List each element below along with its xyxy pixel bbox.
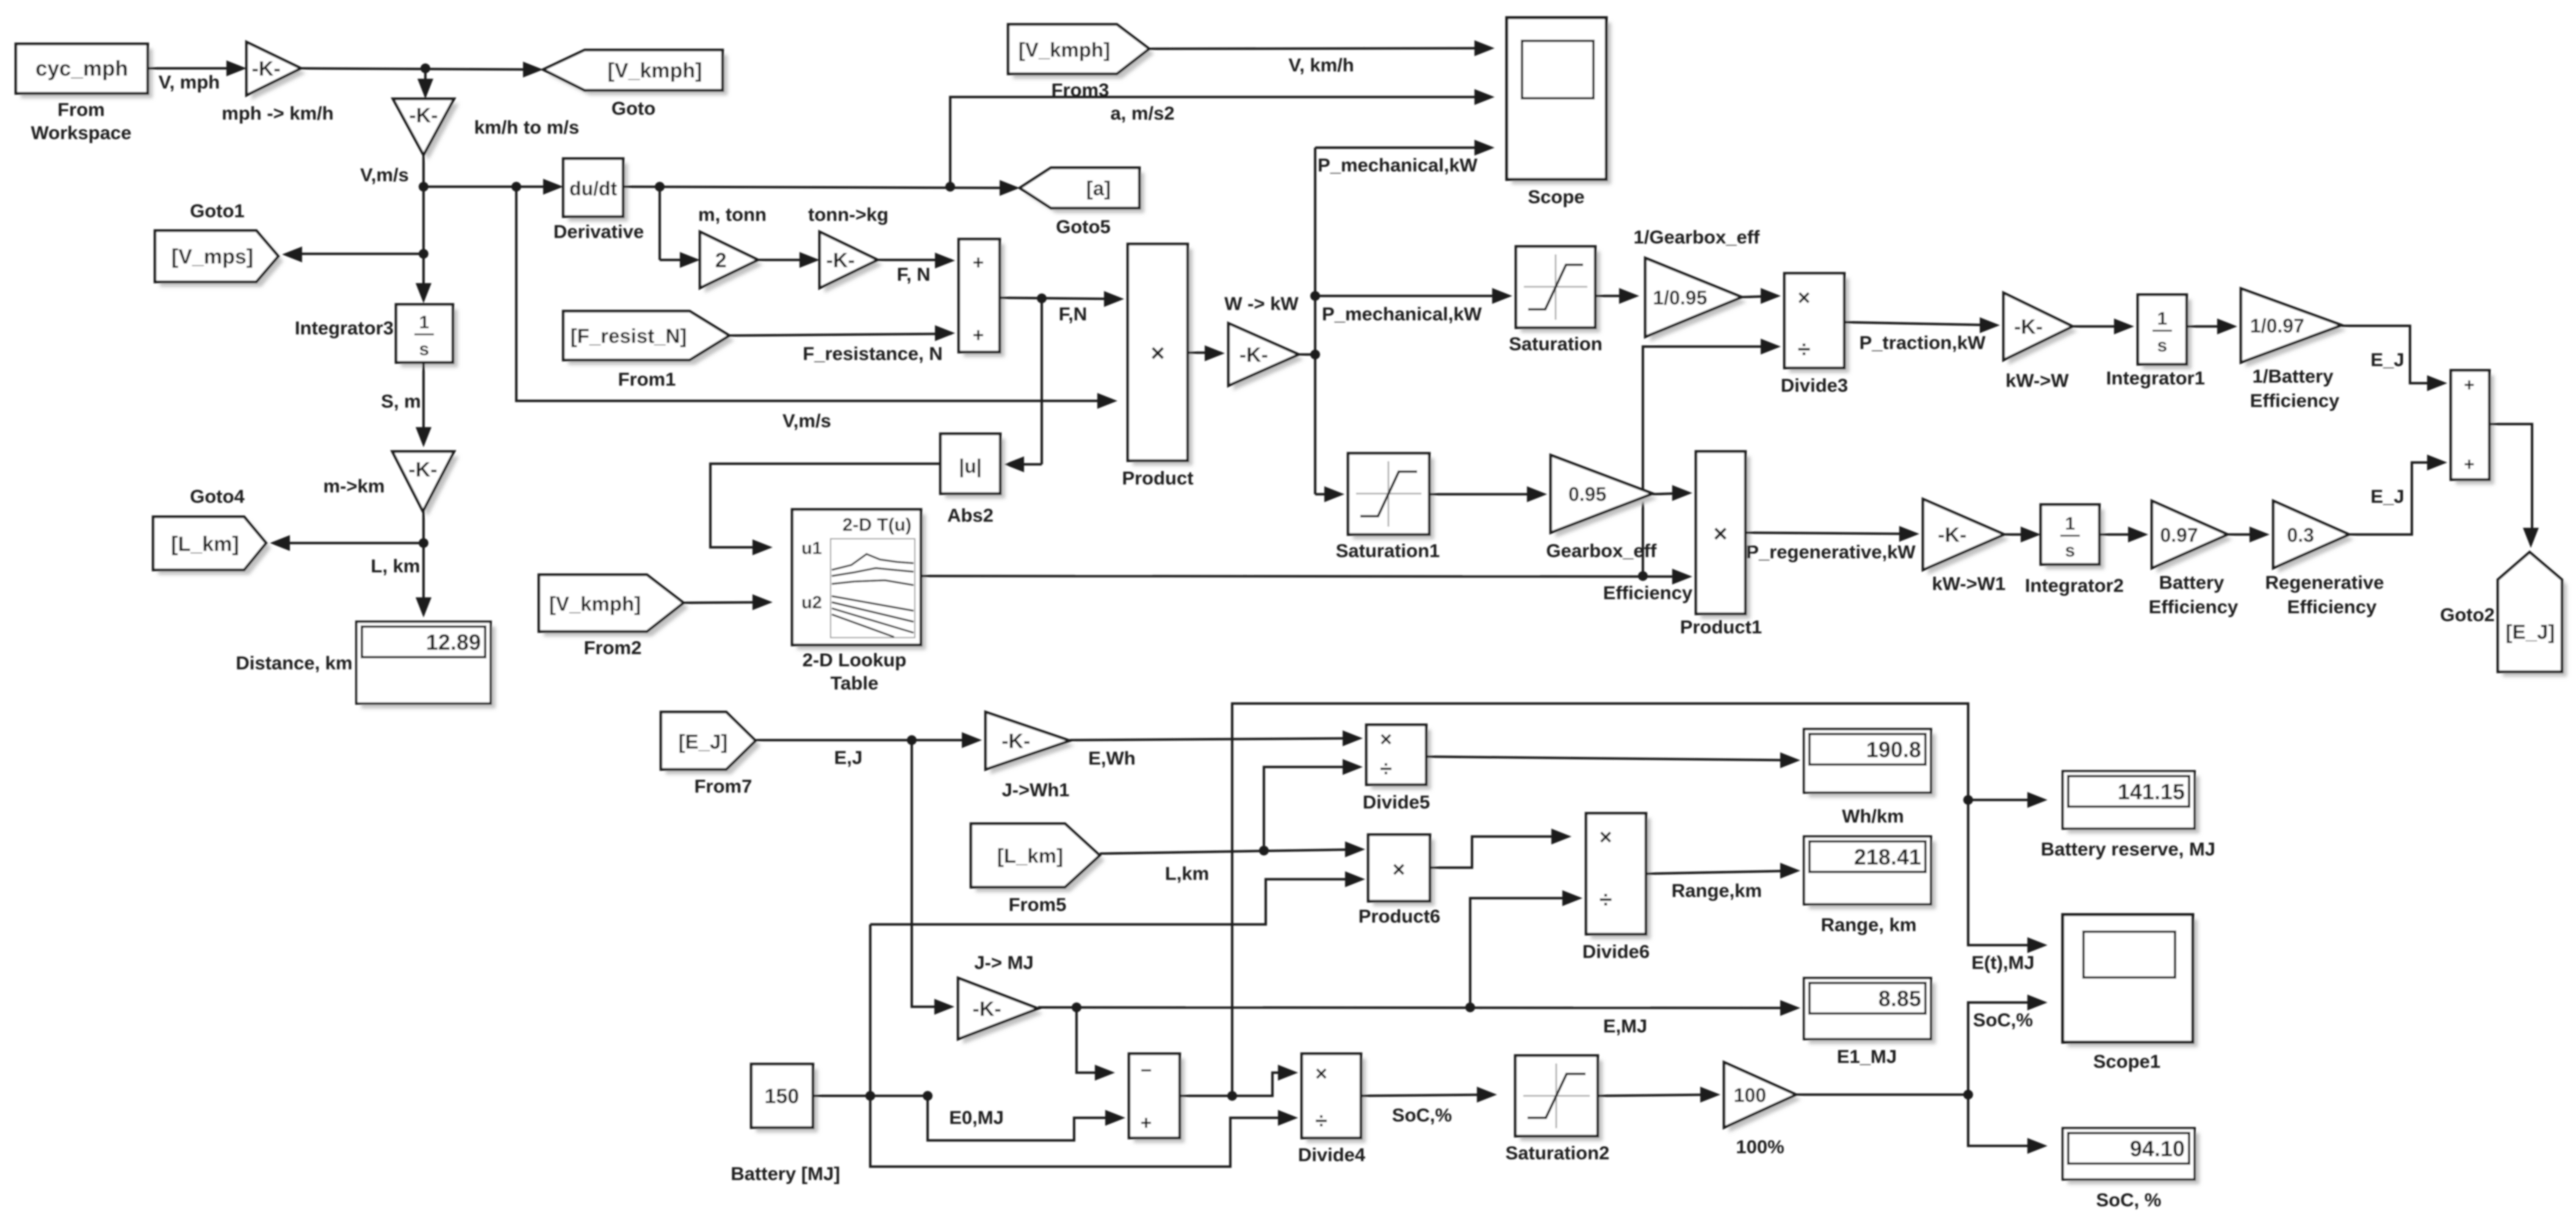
block Scope1 bbox=[2068, 920, 2198, 1047]
wire Saturation2 to 100 gain bbox=[1598, 1095, 1717, 1096]
goto tag [F_resist_N] From1 bbox=[568, 316, 734, 365]
block Saturation bbox=[1521, 251, 1600, 333]
wire Saturation to 1/Gearbox_eff gain bbox=[1595, 295, 1636, 297]
svg-text:J->Wh1: J->Wh1 bbox=[1001, 779, 1069, 801]
svg-text:[V_mps]: [V_mps] bbox=[171, 245, 253, 268]
display Distance, km value 12.89 bbox=[361, 627, 496, 708]
from tag [L_km] From5 bbox=[976, 829, 1105, 892]
svg-text:Battery: Battery bbox=[2159, 572, 2225, 593]
svg-text:+: + bbox=[2464, 455, 2475, 475]
svg-text:[V_kmph]: [V_kmph] bbox=[608, 59, 702, 82]
svg-text:×: × bbox=[1599, 824, 1612, 849]
svg-text:V,m/s: V,m/s bbox=[782, 410, 831, 431]
svg-text:÷: ÷ bbox=[1600, 887, 1612, 913]
svg-text:100: 100 bbox=[1734, 1084, 1766, 1106]
svg-text:SoC, %: SoC, % bbox=[2096, 1189, 2162, 1211]
wire E(t) to Battery reserve display bbox=[1968, 799, 2044, 801]
svg-text:-K-: -K- bbox=[973, 998, 1001, 1021]
block Integrator3 1/s bbox=[401, 309, 458, 367]
wire E0 drop to Divide4 divide input bbox=[870, 1096, 1294, 1167]
wire junction down into km/h to m/s gain bbox=[424, 68, 427, 96]
block Integrator2 1/s bbox=[2046, 509, 2104, 569]
wire to Saturation, label P_mechanical,kW bbox=[1315, 295, 1509, 297]
wire Abs2 output loop to lookup u1 bbox=[710, 464, 940, 547]
wire P_mechanical vertical trunk x=2155 bbox=[1314, 148, 1316, 494]
gain kW->W (-K-) bbox=[2008, 298, 2077, 365]
svg-text:[V_kmph]: [V_kmph] bbox=[549, 592, 641, 615]
gain tonn->kg (-K-) bbox=[824, 237, 882, 293]
svg-text:F, N: F, N bbox=[897, 264, 930, 285]
svg-text:[V_kmph]: [V_kmph] bbox=[1019, 38, 1110, 61]
gain J->MJ (-K-) bbox=[963, 983, 1043, 1044]
svg-text:Integrator2: Integrator2 bbox=[2025, 575, 2124, 596]
wire 0.95 to Product1 input 1 bbox=[1653, 493, 1689, 494]
gain 2 (mass, tonn) bbox=[705, 237, 763, 293]
svg-text:Saturation: Saturation bbox=[1509, 333, 1602, 355]
goto tag [a] Goto5 bbox=[1025, 173, 1144, 213]
wire 1/0.95 to Divide3 X input bbox=[1742, 296, 1777, 297]
block Product6 bbox=[1373, 840, 1435, 906]
wire to Scope input 3, label P_mechanical,kW bbox=[1315, 146, 1491, 149]
wire Saturation1 to Gearbox_eff gain bbox=[1429, 493, 1543, 495]
gain Battery Efficiency (0.97) bbox=[2157, 506, 2232, 573]
svg-text:+: + bbox=[1141, 1112, 1152, 1134]
svg-text:×: × bbox=[1713, 520, 1727, 547]
display Range, km value 218.41 bbox=[1809, 841, 1936, 909]
display SoC, % value 94.10 bbox=[2068, 1133, 2199, 1184]
wire From1 to Add, label F_resistance, N bbox=[729, 334, 951, 336]
svg-text:−: − bbox=[1141, 1059, 1152, 1081]
display Battery reserve, MJ value 141.15 bbox=[2068, 776, 2199, 833]
block Divide5 bbox=[1371, 730, 1431, 790]
gain Regenerative Efficiency (0.3) bbox=[2278, 506, 2354, 573]
svg-text:J-> MJ: J-> MJ bbox=[974, 952, 1033, 973]
block du/dt Derivative bbox=[568, 164, 628, 221]
wire junction down to Abs2 input bbox=[1041, 298, 1043, 464]
block 2-D Lookup Table bbox=[797, 514, 926, 650]
svg-text:Wh/km: Wh/km bbox=[1842, 805, 1904, 827]
goto tag [V_kmph] Goto bbox=[548, 55, 727, 95]
svg-text:SoC,%: SoC,% bbox=[1973, 1009, 2033, 1031]
sum block Subtract (150 - E) bbox=[1134, 1059, 1185, 1143]
svg-text:E1_MJ: E1_MJ bbox=[1837, 1046, 1897, 1067]
from tag [V_kmph] From2 bbox=[544, 580, 688, 636]
svg-text:[L_km]: [L_km] bbox=[171, 533, 239, 556]
svg-text:[L_km]: [L_km] bbox=[997, 844, 1063, 867]
svg-text:Battery [MJ]: Battery [MJ] bbox=[731, 1163, 840, 1184]
svg-text:-K-: -K- bbox=[409, 104, 438, 128]
svg-text:Scope: Scope bbox=[1528, 186, 1584, 207]
gain Gearbox_eff (0.95) bbox=[1556, 460, 1658, 538]
svg-text:Divide3: Divide3 bbox=[1781, 375, 1848, 396]
svg-text:-K-: -K- bbox=[1938, 524, 1966, 547]
svg-text:-K-: -K- bbox=[408, 458, 437, 481]
svg-text:Range, km: Range, km bbox=[1821, 914, 1917, 935]
svg-text:V,m/s: V,m/s bbox=[360, 164, 409, 185]
wire SoC trunk to Scope1 input 2, label SoC,% bbox=[1968, 1002, 2044, 1095]
svg-text:+: + bbox=[2464, 375, 2475, 395]
svg-text:÷: ÷ bbox=[1798, 337, 1811, 362]
svg-text:u1: u1 bbox=[801, 539, 822, 558]
svg-text:Divide6: Divide6 bbox=[1582, 941, 1650, 962]
svg-text:Efficiency: Efficiency bbox=[2149, 596, 2239, 617]
gain 1/Battery Efficiency (1/0.97) bbox=[2246, 293, 2347, 367]
svg-text:×: × bbox=[1150, 340, 1164, 367]
goto tag [V_mps] Goto1 bbox=[160, 236, 283, 287]
svg-text:tonn->kg: tonn->kg bbox=[808, 204, 889, 225]
svg-text:mph -> km/h: mph -> km/h bbox=[222, 103, 333, 124]
svg-text:+: + bbox=[973, 251, 984, 273]
svg-text:1/Gearbox_eff: 1/Gearbox_eff bbox=[1634, 226, 1760, 248]
wire down to Saturation1 bbox=[1315, 493, 1341, 495]
svg-text:[a]: [a] bbox=[1086, 177, 1111, 200]
svg-text:Saturation1: Saturation1 bbox=[1336, 540, 1440, 561]
wire 150 output, junctions x=1426 x=1520, label E0,MJ bbox=[813, 1095, 928, 1097]
wire E0 line to Product6 input 2 bbox=[870, 879, 1362, 924]
svg-text:L, km: L, km bbox=[371, 555, 420, 577]
svg-text:L,km: L,km bbox=[1165, 863, 1209, 884]
svg-text:s: s bbox=[2157, 336, 2168, 356]
svg-text:Product6: Product6 bbox=[1358, 905, 1440, 927]
wire Divide4 output to Saturation2, label SoC,% bbox=[1361, 1095, 1493, 1096]
svg-text:|u|: |u| bbox=[959, 455, 981, 477]
wire E0 jog to Subtract plus input bbox=[928, 1096, 1122, 1140]
svg-text:-K-: -K- bbox=[1239, 344, 1268, 367]
svg-text:m, tonn: m, tonn bbox=[698, 204, 767, 225]
wire m->km down to Display, junction to [L_km] bbox=[422, 511, 425, 614]
svg-text:0.3: 0.3 bbox=[2287, 524, 2314, 546]
svg-text:Product1: Product1 bbox=[1680, 616, 1762, 638]
wire Divide5 divide input from L,km line bbox=[1264, 767, 1359, 846]
svg-text:SoC,%: SoC,% bbox=[1392, 1104, 1452, 1126]
svg-text:Divide5: Divide5 bbox=[1363, 791, 1430, 813]
svg-text:1/0.97: 1/0.97 bbox=[2250, 315, 2304, 337]
sum block Add1 (E_J + E_J) bbox=[2456, 375, 2494, 484]
svg-text:P_traction,kW: P_traction,kW bbox=[1860, 332, 1986, 353]
svg-text:Distance, km: Distance, km bbox=[236, 652, 352, 674]
svg-text:1: 1 bbox=[2157, 309, 2168, 329]
svg-text:0.95: 0.95 bbox=[1568, 483, 1606, 505]
svg-text:Product: Product bbox=[1122, 467, 1193, 489]
gain J->Wh1 (-K-) bbox=[990, 717, 1075, 774]
gain W->kW (-K-) bbox=[1233, 328, 1304, 391]
svg-text:×: × bbox=[1380, 728, 1392, 751]
svg-text:-K-: -K- bbox=[826, 249, 855, 272]
block Divide6 bbox=[1591, 818, 1651, 939]
svg-text:P_mechanical,kW: P_mechanical,kW bbox=[1318, 154, 1478, 176]
svg-text:km/h to m/s: km/h to m/s bbox=[474, 117, 579, 138]
svg-text:+: + bbox=[973, 324, 984, 346]
svg-text:94.10: 94.10 bbox=[2130, 1136, 2185, 1161]
svg-text:Goto: Goto bbox=[612, 98, 655, 119]
svg-text:From: From bbox=[57, 99, 105, 120]
svg-text:Divide4: Divide4 bbox=[1298, 1144, 1366, 1165]
display E1_MJ value 8.85 bbox=[1809, 983, 1936, 1044]
wire vertical V,m/s trunk x=694 bbox=[422, 155, 425, 300]
wire J->MJ output E,MJ line to E1_MJ display, junctions bbox=[1038, 1007, 1797, 1008]
gain km/h to m/s (-K- down triangle) bbox=[398, 104, 459, 160]
wire Integrator2 to Battery Efficiency gain bbox=[2099, 533, 2145, 536]
from tag [E_J] From7 bbox=[666, 717, 760, 774]
wire W->kW output to vertical trunk x=2155 bbox=[1299, 353, 1315, 356]
svg-text:Efficiency: Efficiency bbox=[2287, 596, 2377, 617]
goto tag [E_J] Goto2 (points up) bbox=[2503, 557, 2567, 677]
from tag [V_kmph] From3 bbox=[1013, 29, 1154, 79]
svg-text:P_mechanical,kW: P_mechanical,kW bbox=[1322, 303, 1482, 325]
svg-text:Goto1: Goto1 bbox=[190, 200, 245, 221]
svg-text:Integrator1: Integrator1 bbox=[2106, 367, 2205, 389]
svg-text:[E_J]: [E_J] bbox=[2506, 621, 2555, 643]
svg-text:Integrator3: Integrator3 bbox=[295, 317, 394, 339]
svg-text:2: 2 bbox=[715, 249, 727, 272]
wire From5 L,km line to Product6 input 1, junction x=2071 bbox=[1100, 849, 1362, 854]
wire a,m/s2 to Scope input 2 bbox=[950, 97, 1491, 187]
svg-text:190.8: 190.8 bbox=[1866, 737, 1921, 762]
wire Product6 output to Divide6 X input bbox=[1430, 837, 1568, 868]
svg-text:From1: From1 bbox=[618, 369, 676, 390]
svg-text:From7: From7 bbox=[695, 776, 752, 797]
svg-text:Efficiency: Efficiency bbox=[1603, 582, 1693, 603]
wire gain2 to tonn->kg gain bbox=[758, 259, 816, 261]
svg-text:1: 1 bbox=[419, 312, 430, 333]
block cyc_mph (From Workspace source) bbox=[21, 49, 153, 98]
block Saturation2 bbox=[1520, 1060, 1603, 1141]
wire Divide6 output to Range display, label Range,km bbox=[1646, 871, 1797, 874]
svg-text:F,N: F,N bbox=[1059, 303, 1088, 325]
gain m->km (-K- down triangle) bbox=[397, 456, 459, 516]
svg-text:100%: 100% bbox=[1736, 1136, 1784, 1157]
gain 1/Gearbox_eff (1/0.95) bbox=[1650, 263, 1747, 342]
svg-text:218.41: 218.41 bbox=[1854, 844, 1921, 869]
wire J->Wh1 to Divide5 X input, label E,Wh bbox=[1070, 738, 1359, 740]
svg-text:E,J: E,J bbox=[834, 747, 863, 768]
svg-text:-K-: -K- bbox=[2014, 315, 2043, 339]
svg-text:cyc_mph: cyc_mph bbox=[35, 57, 128, 81]
svg-text:P_regenerative,kW: P_regenerative,kW bbox=[1746, 541, 1916, 563]
svg-text:kW->W: kW->W bbox=[2005, 370, 2069, 391]
svg-text:÷: ÷ bbox=[1315, 1108, 1327, 1133]
svg-text:[E_J]: [E_J] bbox=[679, 730, 728, 753]
svg-text:1: 1 bbox=[2065, 514, 2076, 534]
svg-text:Abs2: Abs2 bbox=[947, 505, 994, 526]
svg-text:8.85: 8.85 bbox=[1878, 986, 1921, 1011]
svg-text:2-D Lookup: 2-D Lookup bbox=[803, 649, 907, 671]
block Product1 bbox=[1701, 456, 1750, 619]
block Integrator1 1/s bbox=[2143, 300, 2192, 369]
svg-text:1/Battery: 1/Battery bbox=[2253, 365, 2334, 387]
svg-text:Scope1: Scope1 bbox=[2093, 1051, 2160, 1072]
wire Add output to Product, junction x=1707, label F,N bbox=[1000, 298, 1120, 299]
wire V,m/s long line to Product input 2 bbox=[516, 187, 1114, 401]
wire E,J drop to J->MJ gain input bbox=[912, 740, 951, 1007]
wire junction to [L_km] tag bbox=[286, 542, 424, 544]
sum block Add (F,N = F + F_resistance) bbox=[964, 244, 1005, 357]
lookup table efficiency curves bbox=[832, 554, 914, 570]
gain mph -> km/h (-K-) bbox=[251, 47, 306, 100]
goto tag [L_km] Goto4 bbox=[158, 522, 271, 575]
svg-text:Derivative: Derivative bbox=[554, 221, 644, 242]
svg-text:E_J: E_J bbox=[2370, 349, 2404, 370]
block Saturation1 bbox=[1353, 458, 1434, 539]
block Divide4 bbox=[1307, 1059, 1366, 1143]
wire Divide5 output to Wh/km display bbox=[1426, 757, 1797, 760]
svg-text:Regenerative: Regenerative bbox=[2265, 572, 2384, 593]
svg-text:u2: u2 bbox=[801, 593, 822, 613]
svg-text:×: × bbox=[1315, 1062, 1327, 1085]
wire From2 to lookup u2 bbox=[684, 602, 769, 603]
svg-text:From5: From5 bbox=[1009, 894, 1067, 915]
display Wh/km value 190.8 bbox=[1809, 734, 1936, 797]
wire Efficiency line from lookup to Product1 input 2 bbox=[921, 576, 1689, 577]
svg-text:From2: From2 bbox=[584, 637, 642, 658]
svg-text:Battery reserve, MJ: Battery reserve, MJ bbox=[2041, 838, 2215, 860]
wire Divide6 divide input from E,MJ line bbox=[1470, 898, 1579, 1003]
wire Divide3 divide input from Efficiency line bbox=[1643, 347, 1777, 572]
svg-text:[F_resist_N]: [F_resist_N] bbox=[571, 325, 687, 347]
svg-text:F_resistance, N: F_resistance, N bbox=[803, 343, 942, 364]
svg-text:×: × bbox=[1797, 285, 1810, 310]
svg-text:-K-: -K- bbox=[251, 57, 280, 81]
svg-text:Efficiency: Efficiency bbox=[2250, 390, 2340, 411]
wire Integrator3 down to m->km gain bbox=[422, 362, 425, 444]
svg-text:s: s bbox=[419, 339, 430, 359]
wire E(t) trunk from Subtract up over to displays bbox=[1232, 704, 2044, 1096]
wire gain to Goto [V_kmph], junction at x=697 bbox=[301, 68, 539, 70]
wire junction to [V_mps] tag (leftward) bbox=[298, 253, 424, 255]
wire V,m/s to du/dt Derivative, junction x=846 bbox=[424, 185, 560, 188]
svg-text:du/dt: du/dt bbox=[569, 178, 618, 200]
svg-text:÷: ÷ bbox=[1380, 756, 1392, 781]
svg-text:1/0.95: 1/0.95 bbox=[1653, 287, 1707, 309]
svg-text:12.89: 12.89 bbox=[426, 630, 481, 655]
svg-text:V, mph: V, mph bbox=[159, 71, 220, 93]
svg-text:s: s bbox=[2065, 541, 2076, 561]
wire kW->W1 to Integrator2 bbox=[2004, 533, 2037, 536]
svg-text:Gearbox_eff: Gearbox_eff bbox=[1546, 540, 1658, 561]
wire 0.3 to Add1 bottom input, label E_J bbox=[2349, 463, 2444, 535]
wire branch down to Subtract minus input bbox=[1077, 1007, 1111, 1073]
wire 100 output to SoC trunk x=3225 bbox=[1796, 1093, 1968, 1096]
wire Product to W->kW gain bbox=[1188, 351, 1221, 354]
wire From3 to Scope input 1, label V, km/h bbox=[1149, 48, 1491, 49]
svg-text:2-D T(u): 2-D T(u) bbox=[842, 515, 911, 535]
wire From7 to J->Wh1 gain, label E,J junction x=1494 bbox=[756, 739, 978, 741]
wire 0.97 to Regenerative Efficiency gain bbox=[2228, 533, 2266, 536]
wire kW->W to Integrator1 bbox=[2073, 325, 2130, 328]
svg-text:0.97: 0.97 bbox=[2160, 524, 2198, 546]
gain 100 (100%) bbox=[1729, 1067, 1801, 1132]
block Abs2 |u| bbox=[945, 439, 1005, 499]
svg-text:E,Wh: E,Wh bbox=[1088, 747, 1136, 769]
wire 1/0.97 to Add1 top input, label E_J bbox=[2342, 326, 2444, 383]
wire Divide3 output to kW->W gain, label P_traction,kW bbox=[1844, 322, 1996, 325]
wire SoC trunk down to SoC display bbox=[1968, 1095, 2044, 1146]
wire a-tap down to gain 2, from junction x=1081 bbox=[623, 187, 1016, 188]
svg-text:m->km: m->km bbox=[323, 475, 385, 497]
svg-text:150: 150 bbox=[765, 1085, 799, 1108]
svg-text:Goto4: Goto4 bbox=[190, 486, 245, 507]
svg-text:S, m: S, m bbox=[381, 391, 420, 412]
wire Add1 output down to Goto2 bbox=[2489, 424, 2532, 541]
wire Product1 to kW->W1, label P_regenerative,kW bbox=[1745, 533, 1916, 534]
block Product (F x V) bbox=[1133, 249, 1192, 466]
gain kW->W1 (-K-) bbox=[1928, 504, 2009, 575]
svg-text:Goto5: Goto5 bbox=[1056, 216, 1111, 237]
block Battery [MJ] constant 150 bbox=[756, 1069, 818, 1132]
wire E0 riser x=1426 up to Product6 feed bbox=[869, 924, 871, 1096]
svg-text:Range,km: Range,km bbox=[1672, 880, 1762, 901]
svg-text:E0,MJ: E0,MJ bbox=[949, 1107, 1004, 1128]
svg-text:-K-: -K- bbox=[1001, 730, 1030, 753]
block Scope bbox=[1512, 23, 1611, 184]
svg-text:×: × bbox=[1392, 857, 1405, 882]
svg-text:Table: Table bbox=[831, 672, 879, 694]
block Divide3 bbox=[1789, 278, 1849, 373]
wire tonn->kg to Add, label F, N bbox=[878, 259, 951, 261]
svg-text:E_J: E_J bbox=[2370, 486, 2404, 507]
svg-text:a, m/s2: a, m/s2 bbox=[1110, 103, 1174, 124]
svg-text:kW->W1: kW->W1 bbox=[1932, 573, 2006, 594]
wire Subtract output to Divide4 X input, junction x=2019 bbox=[1180, 1073, 1294, 1096]
svg-text:Goto2: Goto2 bbox=[2440, 604, 2495, 625]
svg-text:V, km/h: V, km/h bbox=[1288, 54, 1354, 76]
wire Integrator1 to 1/Battery Efficiency gain bbox=[2187, 325, 2234, 328]
svg-text:E(t),MJ: E(t),MJ bbox=[1971, 952, 2034, 973]
svg-text:E,MJ: E,MJ bbox=[1603, 1015, 1647, 1037]
svg-text:141.15: 141.15 bbox=[2118, 779, 2185, 804]
svg-text:W -> kW: W -> kW bbox=[1224, 293, 1299, 314]
svg-text:Workspace: Workspace bbox=[31, 122, 132, 143]
svg-text:Saturation2: Saturation2 bbox=[1506, 1142, 1610, 1164]
wire cyc_mph to mph->km/h gain, label V, mph bbox=[148, 67, 243, 70]
